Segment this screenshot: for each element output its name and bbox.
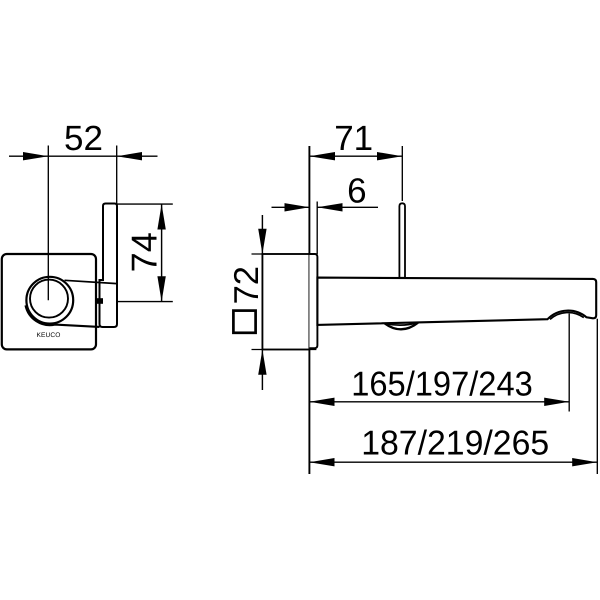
dim 72 bottom tick	[252, 349, 317, 351]
svg-text:71: 71	[334, 119, 373, 158]
dim 72 arrow top	[258, 229, 266, 254]
dim 187 arrow right	[572, 458, 597, 466]
svg-text:KEUCO: KEUCO	[37, 332, 61, 339]
dim 71 line	[309, 155, 402, 157]
dim 74 arrow bottom	[157, 276, 165, 301]
dim 74 top tick	[117, 203, 173, 205]
aerator upper arc	[385, 323, 418, 325]
wall line (right view)	[308, 146, 310, 474]
dim 165 arrow left	[309, 398, 334, 406]
dim 52 extension left / center axis	[47, 146, 49, 301]
svg-text:72: 72	[228, 266, 266, 304]
svg-text:74: 74	[123, 232, 164, 272]
svg-text:6: 6	[347, 172, 366, 211]
knob outer circle	[26, 277, 73, 324]
dim 165 arrow right	[544, 398, 569, 406]
lever handle (side view)	[100, 204, 118, 328]
svg-text:52: 52	[64, 119, 103, 158]
knob bottom silhouette arc	[26, 305, 100, 327]
svg-text:165/197/243: 165/197/243	[351, 366, 533, 404]
knob inner circle	[30, 280, 68, 318]
dim 187 extension	[596, 319, 598, 474]
svg-text:187/219/265: 187/219/265	[361, 425, 549, 463]
dim 52 arrow right	[117, 152, 142, 160]
dim 72 top tick	[252, 253, 318, 255]
dim 52 line	[9, 155, 158, 157]
escutcheon strip (6mm)	[309, 254, 317, 348]
dim 74 arrow top	[157, 204, 165, 229]
spout tip inner arc	[550, 312, 584, 319]
dim 6 leader	[317, 206, 378, 208]
wall plate (side view, right)	[262, 254, 309, 350]
dim 6 arrow left	[285, 203, 310, 211]
mixer pin	[399, 203, 405, 277]
dim 6 left approach line	[272, 206, 310, 208]
dim 74 bottom tick	[117, 301, 173, 303]
dim 71 arrow right	[377, 152, 402, 160]
dim 52 extension right	[116, 146, 118, 204]
dim 6 arrow right	[317, 203, 342, 211]
dim 72 arrow bottom	[258, 350, 266, 375]
valve stem	[95, 298, 103, 304]
aerator lower arc	[385, 323, 418, 330]
dim 74 line	[161, 204, 163, 302]
knob top silhouette line	[65, 280, 118, 283]
dim 52 arrow left	[23, 152, 48, 160]
dim 6 extension	[316, 202, 318, 255]
dim 71 extension right	[401, 146, 403, 201]
dim 187 line	[309, 461, 597, 463]
dim 71 arrow left	[309, 152, 335, 160]
spout body	[317, 278, 596, 325]
dim 165 line	[309, 401, 569, 403]
dim 165 extension	[568, 314, 570, 412]
escutcheon plate (front view, left)	[2, 254, 96, 349]
dim 72 line	[261, 215, 263, 390]
dim 72 square symbol	[233, 311, 255, 333]
dim 187 arrow left	[309, 458, 334, 466]
